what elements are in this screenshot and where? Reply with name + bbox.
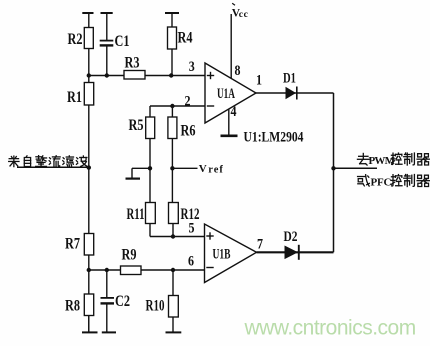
svg-text:R3: R3 — [125, 55, 140, 72]
resistor R2 — [68, 28, 94, 49]
resistor R11 — [127, 203, 156, 224]
svg-text:4: 4 — [231, 104, 237, 120]
svg-text:1: 1 — [256, 73, 262, 89]
wire: R10 column — [172, 270, 174, 332]
label U1:LM2904 — [244, 130, 304, 146]
terminal bar above C1 — [101, 12, 113, 14]
terminal bar below R10 — [166, 331, 182, 333]
svg-text:PWM: PWM — [369, 155, 396, 167]
node: C2 top junction — [105, 268, 109, 272]
pin number 6 (U1B -) — [188, 254, 194, 270]
diode D2 — [284, 229, 299, 260]
resistor R9 — [121, 247, 142, 275]
svg-text:ref: ref — [208, 164, 224, 175]
wire: R11 bottom drop — [149, 223, 151, 237]
svg-text:7: 7 — [257, 237, 263, 253]
resistor R1 — [67, 83, 94, 107]
wire: left column R1-R7-R8 (input rail) — [88, 76, 90, 333]
resistor R4 — [168, 27, 193, 49]
wire: Vref stub — [172, 167, 197, 169]
svg-text:www.cntronics.com: www.cntronics.com — [244, 317, 416, 340]
node: R10 top junction — [171, 268, 175, 272]
watermark www.cntronics.com — [244, 317, 416, 340]
ground: mid ground bar — [126, 178, 141, 180]
node: input junction on left rail — [87, 165, 91, 169]
label 或PFC控制器 (or PFC controller) — [358, 175, 430, 189]
pin number 4 (U1A V-) — [231, 104, 237, 120]
svg-text:2: 2 — [185, 94, 191, 110]
resistor R7 — [65, 234, 94, 256]
wire: Vcc drop to U1A pin 8 — [230, 14, 232, 79]
op-amp U1A — [205, 63, 256, 123]
svg-text:C1: C1 — [115, 33, 130, 50]
resistor R6 — [168, 117, 196, 140]
wire: R2 column — [88, 13, 90, 76]
svg-text:cc: cc — [239, 10, 249, 20]
svg-text:R1: R1 — [67, 89, 82, 106]
node: C1 bottom junction — [105, 73, 109, 77]
svg-text:R7: R7 — [65, 236, 80, 253]
resistor R5 — [129, 117, 155, 139]
node: R7/R8/R9 junction — [87, 268, 91, 272]
wire: pin-5 line to U1B + — [150, 236, 205, 238]
pin number 2 (U1A -) — [185, 94, 191, 110]
wire: output tap to PWM/PFC label — [334, 167, 378, 169]
svg-text:R10: R10 — [146, 298, 165, 315]
svg-text:R9: R9 — [122, 247, 137, 264]
wire: U1B output pin 7 to D2 and bus — [257, 251, 334, 253]
wire: C1 column — [106, 13, 108, 76]
svg-text:R11: R11 — [127, 206, 145, 223]
wire: R6-R12 column through Vref node — [171, 139, 173, 203]
pin number 3 (U1A +) — [189, 59, 195, 75]
svg-text:D1: D1 — [283, 71, 296, 87]
terminal bar below R8 — [82, 331, 98, 333]
wire: R4 column — [171, 13, 173, 76]
svg-text:C2: C2 — [115, 293, 130, 310]
terminal bar above R4 — [165, 12, 179, 14]
capacitor C1 — [100, 33, 130, 50]
wire: R6 top drop — [171, 106, 173, 117]
svg-text:8: 8 — [235, 63, 241, 79]
node: R12 bottom junction — [171, 234, 175, 238]
capacitor C2 — [101, 293, 131, 310]
wire: R5-R11 column through ground node — [149, 139, 151, 203]
ground: U1A ground bar — [221, 135, 238, 138]
terminal bar above R2 — [82, 12, 93, 14]
diode D1 — [283, 71, 297, 100]
svg-text:R5: R5 — [129, 117, 144, 134]
wire: R5 top drop — [149, 106, 151, 117]
svg-text:R6: R6 — [181, 123, 196, 140]
svg-text:U1:LM2904: U1:LM2904 — [244, 130, 304, 146]
wire: R8 bottom — [88, 316, 90, 333]
svg-text:6: 6 — [188, 254, 194, 270]
wire: pin-3 node line (R1 top / C1 / R3 / R4 to U1A +) — [89, 75, 205, 77]
label Vcc — [232, 3, 249, 20]
wire: C2 column top — [106, 270, 108, 298]
label 去PWM控制器 (to PWM controller) — [357, 153, 429, 167]
resistor R10 — [146, 296, 179, 318]
label 来自整流滤波 (input from rectifier/filter) — [9, 156, 87, 167]
node: R4 bottom junction — [169, 73, 173, 77]
terminal bar below C2 — [102, 331, 116, 333]
pin number 5 (U1B +) — [189, 221, 195, 237]
resistor R3 — [124, 55, 145, 80]
wire: pin-2 line to U1A - — [150, 105, 205, 107]
svg-text:V: V — [199, 163, 207, 175]
label Vref — [199, 163, 224, 175]
svg-text:R8: R8 — [65, 298, 80, 315]
svg-text:5: 5 — [189, 221, 195, 237]
node: ground-side divider node — [148, 166, 152, 170]
op-amp U1B — [205, 224, 257, 283]
svg-text:R4: R4 — [178, 30, 193, 47]
pin number 8 (U1A V+) — [235, 63, 241, 79]
wire: C2 column bottom — [106, 304, 108, 333]
wire: pin-6 node line (R7/R8 node - R9 - U1B -) — [89, 269, 205, 271]
resistor R8 — [65, 294, 94, 316]
svg-text:D2: D2 — [284, 229, 298, 245]
svg-text:R2: R2 — [68, 31, 83, 48]
wire: R12 bottom drop — [172, 223, 174, 237]
node: output bus junction — [331, 166, 335, 170]
wire: input line from 来自整流滤波 — [17, 166, 89, 168]
svg-text:U1B: U1B — [213, 247, 231, 263]
wire: right bus vertical — [333, 93, 335, 252]
svg-text:U1A: U1A — [217, 86, 235, 102]
node: R6 top junction — [170, 104, 174, 108]
wire: U1A pin-4 drop to ground — [228, 109, 230, 135]
wire: mid ground stub — [132, 168, 150, 178]
pin number 1 (U1A out) — [256, 73, 262, 89]
svg-text:3: 3 — [189, 59, 195, 75]
svg-text:PFC: PFC — [371, 177, 392, 189]
wire: U1A output pin 1 to D1 and bus — [256, 92, 334, 94]
resistor R12 — [169, 203, 200, 224]
pin number 7 (U1B out) — [257, 237, 263, 253]
node: Vref divider node — [170, 166, 174, 170]
node: R2/R1 junction — [87, 73, 91, 77]
